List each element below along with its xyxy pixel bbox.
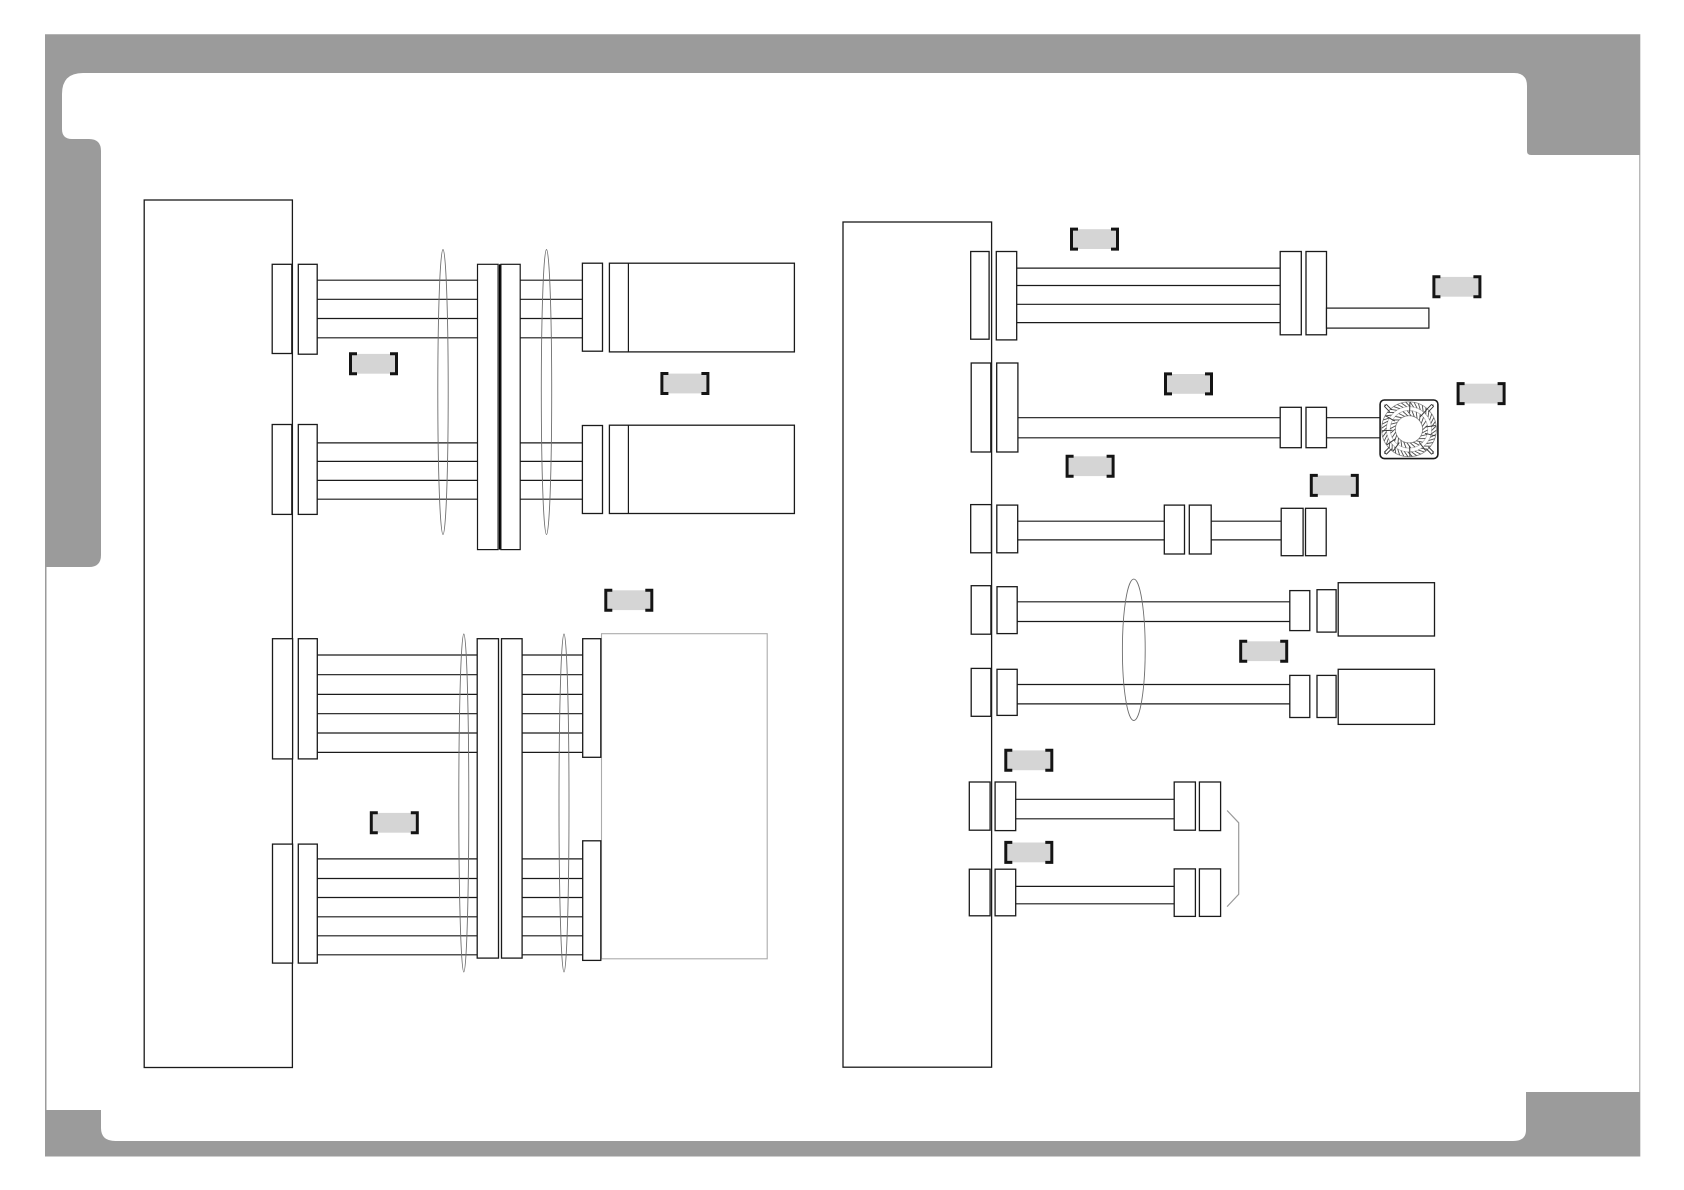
connector CN15 plug (1306, 508, 1327, 555)
wire bundle W3 left (5 conductors) (317, 655, 477, 752)
connector CN13 pin header (971, 505, 992, 553)
module M2 box (609, 425, 794, 513)
wire harness R7 (1016, 886, 1174, 903)
label CN5 (371, 813, 417, 833)
label CN3 (662, 374, 708, 394)
cable stub row1 (1327, 308, 1429, 328)
connector CN16 plug (997, 587, 1017, 634)
cable loop ellipse E5 (1122, 579, 1145, 720)
junction board lower left half (477, 639, 498, 958)
label CN9 (1072, 229, 1118, 249)
connector CN11 plug (997, 363, 1018, 452)
module M1 header strip (627, 263, 629, 352)
label CN11 (1067, 456, 1113, 476)
wire bundle W2 left (3 conductors) (317, 443, 477, 499)
wire bundle W4 left (5 conductors) (317, 859, 477, 955)
connector CN23 plug (1199, 869, 1220, 917)
connector CN6 plug (298, 844, 317, 963)
connector CN9 plug (996, 252, 1016, 340)
connector CN8 plug (583, 841, 601, 961)
wire bundle W2 right (3 conductors) (521, 443, 583, 499)
connector CN15 socket (1281, 508, 1303, 555)
board P1 (left PCB) (144, 200, 292, 1068)
cable loop ellipse E3 (459, 634, 469, 972)
wire harness R3 segment 2 (1211, 521, 1281, 540)
connector CN23 socket (1174, 869, 1195, 917)
junction board lower right half (502, 639, 523, 958)
module M2 header strip (627, 425, 629, 513)
connector CN12 plug (1306, 407, 1327, 447)
connector CN17 plug (1317, 590, 1336, 632)
connector CN5 plug (298, 639, 317, 759)
connector CN5 pin header (273, 639, 293, 759)
connector CN19 plug (1317, 675, 1336, 717)
grouping brace (1227, 811, 1239, 907)
label fan (1458, 384, 1504, 404)
label CN1 (351, 354, 397, 374)
cable loop ellipse E4 (559, 634, 569, 972)
connector CN10 socket (1280, 252, 1301, 335)
junction board right half (501, 264, 520, 549)
wire harness R2 (fan cable left) (1018, 418, 1280, 438)
connector CN1 plug (298, 264, 317, 354)
wire harness R4 (1017, 602, 1290, 622)
connector CN20 pin header (969, 782, 990, 830)
label speaker harness (1241, 641, 1287, 661)
connector CN12 socket (1280, 407, 1301, 447)
wire harness R5 (1017, 685, 1290, 704)
connector CN18 pin header (971, 668, 991, 716)
cable loop ellipse E2 (541, 250, 551, 535)
speaker SP1 box (1338, 583, 1434, 636)
wire harness R6 (1016, 799, 1174, 819)
module M3 box (panel) (602, 634, 768, 959)
junction board divider line (499, 264, 501, 549)
connector CN2 plug (298, 425, 317, 515)
board P2 (right PCB) (843, 222, 992, 1067)
label M3 (606, 590, 652, 610)
connector CN4 plug (582, 426, 602, 514)
wire bundle W1 right (3 conductors) (521, 280, 583, 338)
connector CN14 plug (1189, 505, 1211, 554)
connector CN2 pin header (272, 425, 292, 515)
connector CN1 pin header (272, 264, 292, 353)
connector CN18 plug (997, 669, 1017, 715)
connector CN6 pin header (273, 844, 293, 963)
connector CN14 socket (1164, 505, 1184, 554)
connector CN21 socket (1174, 782, 1195, 830)
connector CN9 pin header (971, 252, 989, 340)
label CN20 (1006, 750, 1052, 770)
connector CN10 plug (1306, 252, 1327, 335)
label CN15 (1311, 475, 1357, 495)
connector CN17 socket (1290, 591, 1310, 631)
wire harness R3 segment 1 (1018, 521, 1165, 540)
connector CN3 plug (582, 263, 602, 351)
cable loop ellipse E1 (438, 250, 448, 535)
label CN22 (1006, 842, 1052, 862)
connector CN22 plug (995, 869, 1016, 916)
connector CN19 socket (1290, 675, 1310, 717)
wire harness R1 (3 conductors) (1017, 268, 1280, 323)
speaker SP2 box (1338, 669, 1434, 724)
wire bundle W4 right (5 conductors) (522, 859, 583, 955)
connector CN21 plug (1199, 782, 1220, 831)
wire harness R2 (fan cable right) (1327, 418, 1381, 438)
junction board left half (478, 264, 499, 549)
label cable row1 (1434, 277, 1480, 297)
connector CN16 pin header (971, 586, 991, 635)
connector CN7 plug (583, 639, 601, 758)
fan FM1 (1380, 400, 1438, 459)
connector CN13 plug (997, 505, 1018, 553)
module M1 box (609, 263, 794, 352)
connector CN22 pin header (969, 869, 990, 916)
label CN11 harness (1166, 374, 1212, 394)
connector CN11 pin header (971, 363, 991, 452)
wire bundle W1 left (3 conductors) (317, 280, 477, 338)
connector CN20 plug (995, 782, 1016, 831)
wire bundle W3 right (5 conductors) (522, 655, 583, 752)
